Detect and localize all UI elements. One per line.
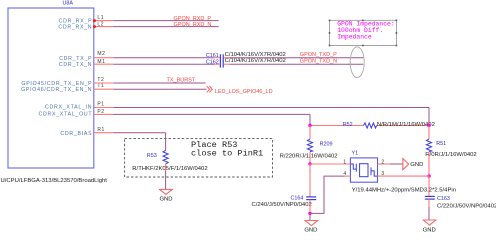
svg-text:GPON_TXD_P: GPON_TXD_P [300,52,337,58]
svg-text:T2: T2 [97,77,104,83]
svg-text:C/104/K/16V/X7R/0402: C/104/K/16V/X7R/0402 [225,58,286,64]
svg-text:CDR_TX_N: CDR_TX_N [59,62,92,68]
wire xtal pin4 stub [345,175,351,177]
ground symbol R53 [159,189,173,194]
pin stub L2 [94,26,113,28]
svg-text:R51: R51 [436,141,446,147]
pin stub T2 [94,82,113,84]
wire R209 to xtal pin1 node [309,152,311,164]
pin stub P1 [94,107,113,109]
wire TX_BURST [113,82,205,84]
wire CDR_BIAS horizontal [113,132,165,134]
svg-text:U8A: U8A [63,0,74,6]
crystal Y1 inner symbol [350,164,356,172]
wire R51 to xtal pin3 node [428,152,430,177]
resistor R209 zigzag [307,139,312,152]
svg-text:C162: C162 [206,59,219,65]
junction dot xtal pin1 [308,162,311,165]
svg-text:M2: M2 [97,51,105,57]
svg-text:GPON_RXD_N: GPON_RXD_N [174,22,212,28]
ground arrow symbol [403,159,409,170]
pin stub M1 [94,63,113,65]
pin dot L2 [93,25,96,28]
capacitor C162 stubs [214,63,219,65]
wire C163 to GND [428,199,430,207]
svg-text:C/220/J/50V/NP0/0402: C/220/J/50V/NP0/0402 [437,203,496,209]
impedance box selection ticks [329,20,398,47]
svg-text:TX_BURST: TX_BURST [167,78,196,84]
capacitor C162 plates [219,61,221,68]
svg-text:C/240/J/50V/NP0/0402: C/240/J/50V/NP0/0402 [252,202,312,208]
wire CDR_TX_P left [113,57,214,59]
svg-text:Impedance: Impedance [337,33,372,40]
svg-text:Y/19.44MHz/+-20ppm/SMD3.2*2.5/: Y/19.44MHz/+-20ppm/SMD3.2*2.5/4Pin [352,188,456,194]
svg-text:R/0R/J/1/16W/0402: R/0R/J/1/16W/0402 [425,152,476,158]
impedance note box [329,20,396,45]
svg-text:Y1: Y1 [352,150,359,156]
wire node to C164 [309,164,311,197]
junction dot xtal pin3 [427,174,430,177]
wire R52 left [310,125,363,127]
off-page connector chevron [207,86,213,92]
resistor R52 zigzag [363,123,376,128]
svg-text:U/CPU/LFBGA-313/BL23570/BroadL: U/CPU/LFBGA-313/BL23570/BroadLight [1,178,108,184]
pin stub L1 [94,20,113,22]
ground symbol left [304,221,318,226]
svg-text:R/220R/J/1/16W/0402: R/220R/J/1/16W/0402 [280,153,338,159]
capacitor C161 plates [219,54,221,61]
svg-text:CDR_BIAS: CDR_BIAS [60,131,92,137]
svg-text:R52: R52 [343,122,353,128]
wire junction to R209 [309,126,311,140]
svg-text:GND: GND [410,162,423,168]
svg-text:R/THKF/2K05/F/1/16W/0402: R/THKF/2K05/F/1/16W/0402 [132,166,207,172]
wire CDRX_XTAL_IN (P1) horizontal [113,107,429,109]
svg-text:L1: L1 [97,15,104,21]
capacitor C161 stubs [214,57,219,59]
svg-text:T1: T1 [97,83,104,89]
wire R53 to GND [165,164,167,171]
resistor R53 zigzag [163,150,168,164]
svg-text:C/104/K/16V/X7R/0402: C/104/K/16V/X7R/0402 [225,52,286,58]
pin dot L1 [93,19,96,22]
svg-text:CDR_RX_N: CDR_RX_N [58,24,92,30]
wire xtal pin2 to gnd arrow [378,163,391,165]
resistor R51 zigzag [426,139,431,152]
svg-text:CDR_TX_P: CDR_TX_P [59,56,92,62]
svg-text:C163: C163 [437,196,450,202]
wire xtal pin4 return [310,176,345,213]
svg-text:GPIO45/CDR_TX_EN_P: GPIO45/CDR_TX_EN_P [21,81,92,87]
svg-text:CDRX_XTAL_OUT: CDRX_XTAL_OUT [39,112,93,118]
svg-text:GND: GND [159,197,172,203]
svg-text:C161: C161 [206,53,219,59]
wire GPON_RXD_P [113,20,218,22]
junction dot gnd node [308,212,311,215]
crystal Y1 body [350,158,377,182]
junction dot right [427,124,430,127]
wire R52 right [377,125,429,127]
svg-text:N/R/1M/J/1/16W/0402: N/R/1M/J/1/16W/0402 [377,122,435,128]
svg-text:GND: GND [304,228,317,234]
wire GPON_TXD_N right [229,63,363,65]
svg-text:GPON_TXD_N: GPON_TXD_N [300,59,337,65]
wire CDR_TX_N left [113,63,214,65]
capacitor C164 plates [306,196,316,198]
wire node to C163 [428,176,430,196]
pin stub R1 [94,132,113,134]
wire node to GND symbol [309,213,311,220]
pin stub P2 [94,113,113,115]
wire xtal pin3 [378,175,430,177]
note dashed box [125,138,273,177]
svg-text:R53: R53 [147,153,157,159]
IC U8A body [8,8,94,168]
ground symbol right [423,220,437,225]
impedance ellipse marker [350,47,364,78]
wire GPON_TXD_P right [229,57,363,59]
wire CDRX_XTAL_OUT (P2) horizontal [113,113,310,115]
wire C164 to gnd node [309,200,311,214]
wire P1 vertical drop [428,108,430,126]
wire LED_LOS [113,88,206,90]
wire CDR_BIAS vertical to R53 [165,133,167,151]
svg-text:close to PinR1: close to PinR1 [191,148,263,158]
svg-text:P1: P1 [97,102,104,108]
svg-text:GPIO46/CDR_TX_EN_N: GPIO46/CDR_TX_EN_N [21,87,92,93]
capacitor C163 plates [425,195,435,197]
wire GPON_RXD_N [113,26,218,28]
pin stub M2 [94,57,113,59]
wire xtal pin1 [310,163,350,165]
svg-text:C164: C164 [291,196,304,202]
wire P2 vertical drop [309,114,311,125]
svg-text:R209: R209 [320,141,333,147]
wire junction to R51 [428,126,430,140]
junction dot left [308,124,311,127]
pin stub T1 [94,88,113,90]
svg-text:LED_LOS_GPIO46_LD: LED_LOS_GPIO46_LD [215,89,273,95]
svg-text:CDRX_XTAL_IN: CDRX_XTAL_IN [45,104,92,110]
svg-text:GND: GND [423,228,436,234]
